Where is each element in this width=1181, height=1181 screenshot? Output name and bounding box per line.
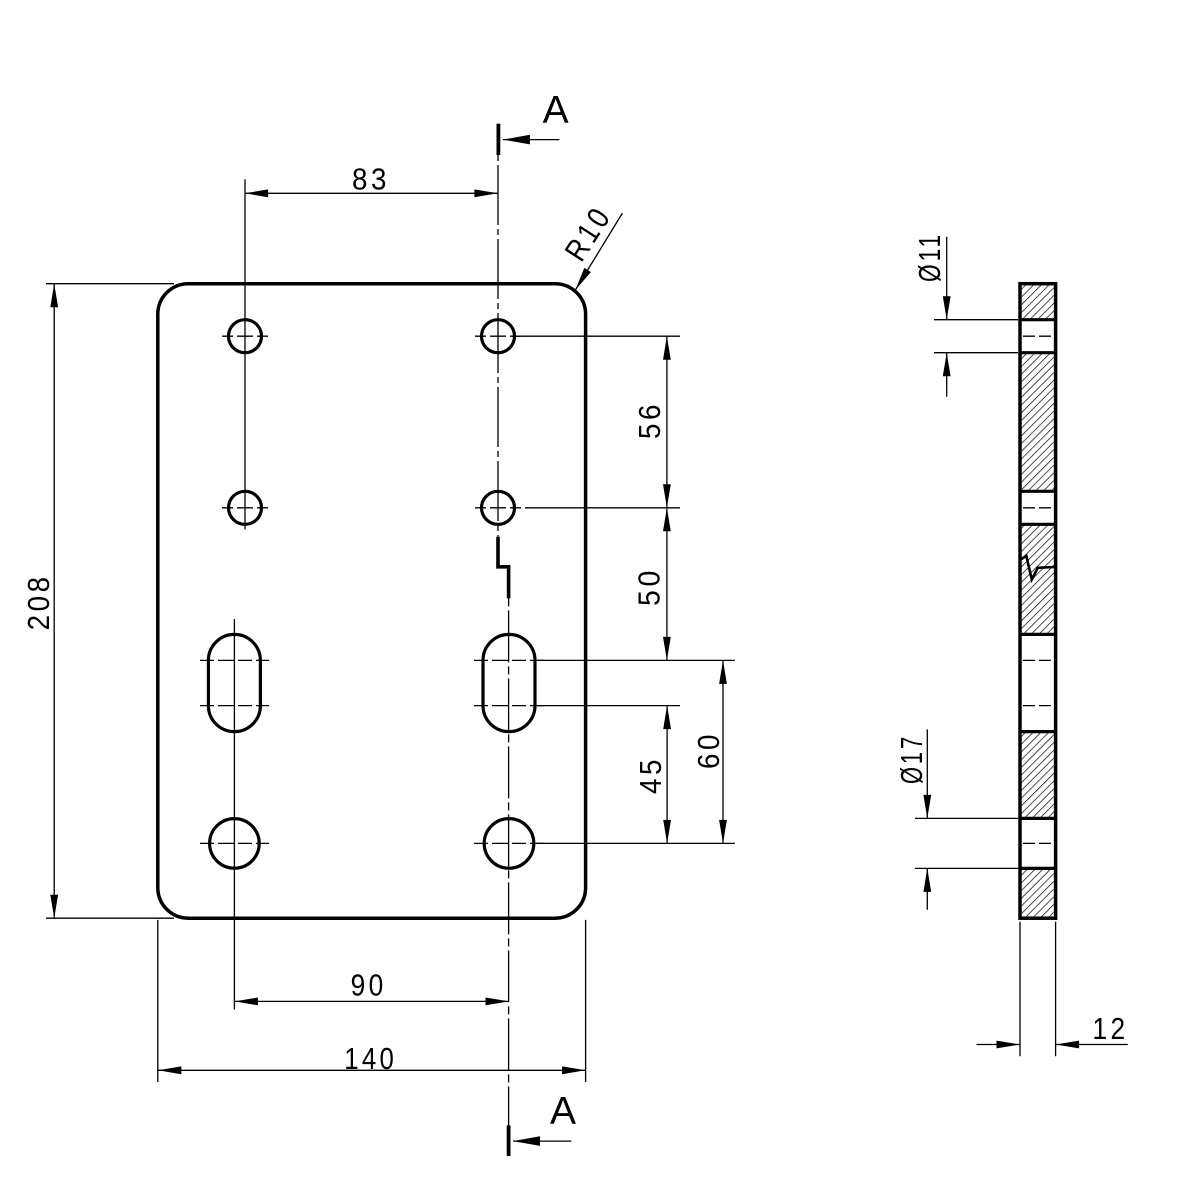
crosshair slot-right lower — [474, 705, 544, 707]
crosshair slot-right upper — [474, 659, 544, 661]
side bar outline — [1020, 284, 1056, 919]
hatch band 1 — [1022, 285, 1054, 319]
leader R10 — [575, 213, 622, 290]
svg-text:208: 208 — [21, 573, 56, 630]
crosshair hole top-left — [222, 335, 268, 337]
dim 140 extension left — [157, 920, 159, 1082]
hatch band 5 — [1022, 868, 1054, 916]
crosshair hole bottom-right — [474, 842, 544, 844]
dim 45 — [666, 706, 668, 844]
section line A-A lower centerline — [508, 598, 510, 1125]
section line jog — [498, 537, 509, 599]
section line A-A lower thick bar — [507, 1125, 511, 1156]
svg-text:45: 45 — [633, 756, 668, 794]
dim 45 extension top (slot lower center) — [537, 705, 680, 707]
hole bottom-right D17 — [484, 819, 534, 869]
svg-text:83: 83 — [352, 161, 390, 196]
dim 56 extension top — [517, 335, 681, 337]
crosshair hole mid-right — [475, 507, 521, 509]
hole mid-left D11 — [229, 491, 262, 524]
svg-text:56: 56 — [632, 401, 667, 439]
svg-text:140: 140 — [344, 1041, 397, 1076]
crosshair slot-left lower — [200, 705, 269, 707]
svg-text:60: 60 — [691, 731, 726, 769]
hatch band 3 — [1022, 524, 1054, 634]
dim 60/45 bottom extension (bottom hole center) — [536, 842, 735, 844]
hole axis dashes in section — [1023, 335, 1051, 337]
svg-text:50: 50 — [632, 567, 667, 606]
section line A-A upper thick bar — [496, 124, 500, 155]
dim 56 extension bottom — [525, 507, 680, 509]
dim D17 extensions — [915, 817, 1018, 819]
dim 208 extension top — [46, 283, 174, 285]
hatch band 2 — [1022, 353, 1054, 492]
hole top-right D11 — [482, 320, 515, 353]
crosshair hole mid-left — [222, 507, 268, 509]
dim 56 — [666, 336, 668, 508]
dim D11 extensions — [934, 319, 1018, 321]
dim 12 — [977, 1044, 1021, 1046]
dim 83 — [245, 192, 498, 194]
hatch band 4 — [1022, 732, 1054, 819]
dim 208 extension bottom — [46, 917, 174, 919]
svg-text:A: A — [550, 1090, 576, 1133]
dim 50/60 shared extension (slot upper center) — [537, 659, 735, 661]
svg-text:Ø17: Ø17 — [894, 734, 929, 784]
section arrow bottom — [513, 1136, 540, 1146]
section line A-A upper centerline — [497, 155, 499, 537]
dim 140 — [158, 1069, 586, 1071]
crosshair hole bottom-left — [200, 842, 269, 844]
dim D11 — [946, 237, 948, 320]
dim D17 — [926, 729, 928, 818]
svg-text:90: 90 — [351, 968, 387, 1003]
crosshair slot-left upper — [200, 659, 269, 661]
slot right — [483, 634, 535, 731]
dim 60 — [722, 660, 724, 843]
slot left — [208, 634, 260, 731]
plate outline (front view, 140x208, R10) — [158, 284, 586, 919]
dim 12 extensions — [1019, 922, 1021, 1057]
svg-text:A: A — [543, 89, 569, 132]
svg-text:12: 12 — [1093, 1011, 1129, 1046]
centerline bottom-left column — [233, 619, 235, 1010]
break squiggle — [1020, 556, 1054, 580]
hole edge lines in section — [1020, 318, 1056, 321]
centerline top-left column — [244, 179, 246, 529]
hole bottom-left D17 — [210, 819, 260, 869]
dim 50 — [666, 508, 668, 661]
section arrow top — [503, 135, 530, 145]
hole mid-right D11 — [482, 491, 515, 524]
dim 90 — [234, 1000, 509, 1002]
crosshair hole top-right — [475, 335, 521, 337]
dim 140 extension right — [585, 920, 587, 1082]
dim 208 — [53, 284, 55, 919]
hole top-left D11 — [229, 320, 262, 353]
svg-text:Ø11: Ø11 — [912, 232, 947, 282]
